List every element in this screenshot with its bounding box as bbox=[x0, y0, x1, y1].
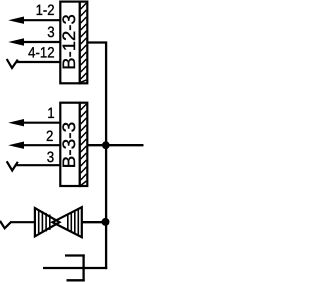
svg-text:3: 3 bbox=[47, 24, 54, 41]
svg-text:В-12-3: В-12-3 bbox=[59, 14, 79, 70]
bottom bar of socket bbox=[67, 279, 85, 281]
wire 1-2 of connector B-12-3 (arrow to left) bbox=[8, 17, 60, 24]
wire from B-3-3 hatched strip to right edge bbox=[87, 144, 143, 146]
connector B-12-3 body (white rectangle) bbox=[60, 2, 80, 84]
wire 4-12 of connector B-12-3 with line-break tick at left end bbox=[7, 59, 61, 68]
top bar of socket bbox=[65, 254, 85, 256]
svg-text:В-3-3: В-3-3 bbox=[59, 122, 79, 169]
svg-text:1-2: 1-2 bbox=[36, 2, 55, 19]
wire 3 of connector B-12-3 (arrow to left) bbox=[8, 38, 60, 45]
valve / throttle symbol (two crossed hatched triangles) bbox=[35, 207, 82, 237]
vertical bar of socket bbox=[82, 254, 84, 281]
wire from valve to bus bbox=[82, 221, 106, 223]
connector B-3-3 hatched mating strip bbox=[80, 103, 88, 186]
junction dot on bus at valve wire bbox=[102, 218, 110, 226]
svg-text:2: 2 bbox=[46, 128, 53, 145]
pin line from bus into socket bbox=[43, 267, 107, 269]
junction dot on bus at B-3-3 wire bbox=[102, 141, 110, 149]
socket (jack) symbol at bottom bbox=[43, 254, 107, 281]
connector B-12-3 hatched mating strip bbox=[80, 2, 88, 84]
svg-text:4-12: 4-12 bbox=[28, 44, 55, 61]
connector B-3-3 body (white rectangle) bbox=[60, 103, 80, 186]
wire 3 of connector B-3-3 with line-break tick at left end bbox=[7, 161, 61, 170]
left wire of valve with line-break tick bbox=[0, 221, 36, 228]
bus vertical line bbox=[105, 145, 107, 269]
svg-text:3: 3 bbox=[47, 149, 54, 166]
svg-text:1: 1 bbox=[47, 105, 54, 122]
wire from B-12-3 hatched strip to bus bbox=[87, 43, 106, 147]
wire 2 of connector B-3-3 (arrow to left) bbox=[8, 142, 60, 149]
wire 1 of connector B-3-3 (arrow to left) bbox=[8, 119, 60, 126]
